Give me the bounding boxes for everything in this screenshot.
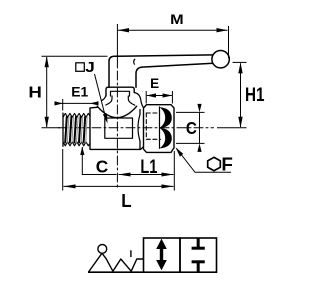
stop plate left foot: [102, 96, 107, 101]
svg-text:L: L: [121, 190, 131, 211]
dim H1 arrows: [238, 62, 242, 127]
bonnet neck: [106, 96, 112, 105]
dim L1 right extension line: [173, 151, 175, 191]
svg-text:C: C: [96, 158, 109, 177]
blocked port bottom T: [197, 263, 200, 272]
dim L1 arrows: [119, 173, 174, 177]
union nut outline: [144, 105, 175, 153]
label F leader: [177, 149, 232, 173]
dim M line: [118, 29, 228, 31]
svg-text:H1: H1: [245, 85, 265, 106]
svg-text:E1: E1: [71, 83, 88, 99]
label J leader: [95, 74, 107, 121]
dim E line: [147, 95, 172, 97]
svg-text:E: E: [150, 76, 159, 91]
dim E1 extension line: [62, 99, 64, 111]
body outline: [90, 107, 143, 149]
symbol box right: [180, 238, 217, 272]
blocked port top T: [197, 239, 200, 248]
svg-text:J: J: [85, 60, 95, 76]
horizontal centerline: [58, 127, 214, 129]
svg-text:C: C: [186, 118, 197, 138]
thread bottom crests: [63, 142, 90, 146]
thread flanks: [65, 117, 85, 143]
vertical stem centerline: [116, 66, 118, 190]
inner bore rectangle: [105, 118, 133, 138]
dim H line: [46, 57, 48, 127]
dim L extension line: [62, 149, 64, 191]
dim H arrows: [45, 56, 49, 127]
dim C right extension lines: [176, 111, 205, 113]
thread top crests: [63, 113, 90, 117]
dim E1 arrows: [55, 101, 99, 105]
dim C right arrows: [197, 104, 201, 152]
dim L arrows: [64, 184, 174, 188]
dim E1 line: [57, 102, 99, 104]
nut hex corner line: [159, 107, 161, 148]
svg-text:L1: L1: [140, 156, 157, 178]
handle outline: [109, 55, 213, 87]
flow double arrow: [160, 246, 163, 264]
nut hidden thread dashes: [146, 113, 160, 139]
stop plate right tab: [134, 93, 143, 108]
hex symbol F: [208, 157, 221, 171]
symbol box left: [144, 238, 181, 272]
svg-text:M: M: [170, 12, 184, 27]
dim C left bent arrow: [82, 147, 116, 175]
dim H extension lines: [42, 55, 108, 57]
body right edge: [139, 110, 141, 150]
stop plate inner channel: [111, 91, 130, 96]
svg-text:F: F: [221, 155, 233, 175]
lever index tick: [130, 250, 132, 257]
male thread end face: [62, 113, 64, 146]
dim H1 extension lines: [233, 61, 247, 63]
thread flank shading: [67, 117, 87, 143]
dim M arrows: [118, 28, 228, 32]
dim E extension lines: [145, 91, 147, 104]
ball dome arc: [97, 106, 136, 117]
stop plate: [106, 87, 134, 96]
dim C right line: [199, 112, 201, 143]
lever detent zigzag: [89, 253, 144, 272]
handle ball end: [212, 51, 229, 68]
dim E arrows: [146, 93, 172, 97]
lever baseline: [88, 271, 144, 273]
nut chamfer crescent upper: [160, 107, 172, 128]
svg-text:H: H: [28, 85, 42, 102]
dim H1 line: [240, 63, 242, 127]
handle bend arc: [134, 59, 135, 64]
dim L1 line: [119, 174, 174, 176]
lever knob circle: [98, 245, 107, 254]
square symbol J: [76, 63, 85, 72]
dim L line: [64, 185, 174, 187]
body right concave arc: [138, 115, 140, 142]
nut chamfer crescent lower: [160, 128, 172, 148]
dim M extension lines: [116, 24, 118, 66]
